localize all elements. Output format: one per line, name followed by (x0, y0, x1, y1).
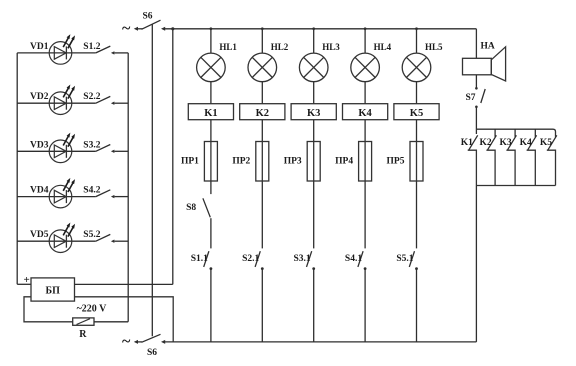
lamp HL4 (351, 42, 392, 82)
wire rail B (172, 29, 174, 285)
wire column 5 drop to lamp (416, 29, 418, 53)
switch S8 (186, 198, 210, 217)
svg-text:~: ~ (122, 333, 131, 350)
switch S7 (465, 89, 485, 108)
wire top rail corner to sounder (475, 29, 477, 59)
wire lamp to relay coil K2 (261, 82, 263, 104)
switch S4.1 (345, 251, 367, 270)
wire rail A (S6 top to S6 bottom) (151, 25, 153, 337)
wire bottom rail (164, 341, 476, 343)
wire contact block to bottom rail (475, 186, 477, 342)
fuse ПР3 (284, 142, 320, 182)
relay coil K5 (394, 104, 439, 120)
power supply unit БП (31, 278, 75, 301)
svg-text:S4.2: S4.2 (83, 186, 100, 196)
svg-text:HL4: HL4 (374, 42, 392, 52)
relay contact K5 (540, 135, 557, 185)
svg-text:S1.2: S1.2 (83, 42, 100, 52)
relay contact K2 (479, 135, 496, 185)
switch S2.1 (242, 251, 264, 270)
switch S3.2 (83, 140, 114, 153)
wire fuse to switch S5.1 (416, 181, 418, 248)
switch S1.1 (191, 251, 213, 270)
wire column 3 drop to lamp (313, 29, 315, 53)
svg-text:K4: K4 (358, 108, 372, 119)
fuse ПР5 (387, 142, 423, 182)
fuse ПР4 (335, 142, 371, 182)
node junction column 5 / top rail (415, 27, 418, 30)
wire S7 to contact block (475, 107, 477, 134)
wire LED left bus (+) (16, 53, 18, 284)
switch S2.2 (83, 92, 114, 105)
svg-text:K3: K3 (499, 138, 511, 148)
wire column 4 drop to lamp (364, 29, 366, 53)
wire AC input 1 (to rail B) (75, 283, 173, 285)
wire lamp to relay coil K3 (313, 82, 315, 104)
svg-text:VD5: VD5 (30, 230, 49, 240)
svg-text:S7: S7 (465, 93, 475, 103)
svg-text:S3.2: S3.2 (83, 140, 100, 150)
lamp HL5 (402, 42, 443, 82)
svg-text:ПР3: ПР3 (284, 157, 302, 167)
wire row 3 from left bus (17, 150, 96, 152)
wire fuse to switch S8 (210, 181, 212, 194)
wire top rail (164, 28, 476, 30)
wire S4.1 to bottom rail (364, 269, 366, 342)
svg-text:HL5: HL5 (425, 42, 443, 52)
wire row 5 from left bus (17, 240, 96, 242)
switch S1.2 (83, 42, 114, 55)
wire column 1 drop to lamp (210, 29, 212, 53)
switch S6 (bottom) (142, 334, 166, 358)
wire contact feed drop (514, 129, 516, 137)
lamp HL1 (197, 42, 238, 82)
wire fuse to switch S4.1 (364, 181, 366, 248)
wire S3.2 to right bus (115, 150, 129, 152)
node junction column 3 / top rail (312, 27, 315, 30)
relay coil K2 (240, 104, 285, 120)
svg-text:ПР5: ПР5 (387, 157, 405, 167)
fuse ПР2 (232, 142, 268, 182)
wire resistor R to LED right bus (94, 321, 128, 323)
lamp HL3 (299, 42, 340, 82)
wire coil to fuse ПР2 (261, 120, 263, 142)
svg-text:K1: K1 (204, 108, 217, 119)
svg-text:S1.1: S1.1 (191, 254, 208, 264)
wire S3.1 to bottom rail (313, 269, 315, 342)
wire S1.2 to right bus (115, 52, 129, 54)
LED VD2 (30, 85, 75, 115)
wire lamp to relay coil K1 (210, 82, 212, 104)
wire left bus to power supply (17, 283, 31, 285)
svg-text:ПР4: ПР4 (335, 157, 353, 167)
svg-text:S5.1: S5.1 (396, 254, 413, 264)
svg-text:HL3: HL3 (322, 42, 340, 52)
svg-text:VD3: VD3 (30, 140, 49, 150)
wire contact block top bus (476, 129, 555, 137)
wire LED right bus (127, 53, 129, 322)
svg-text:~: ~ (122, 20, 131, 37)
wire row 1 from left bus (17, 52, 96, 54)
wire lamp to relay coil K5 (416, 82, 418, 104)
svg-text:БП: БП (46, 286, 61, 297)
sounder HA (463, 42, 506, 82)
wire contact feed drop (534, 129, 536, 137)
wire AC input 2 (75, 297, 174, 342)
svg-text:S4.1: S4.1 (345, 254, 362, 264)
svg-text:VD4: VD4 (30, 186, 49, 196)
svg-text:~220 V: ~220 V (77, 303, 108, 314)
AC supply terminal ~ (bottom) (122, 333, 142, 350)
wire coil to fuse ПР4 (364, 120, 366, 142)
wire coil to fuse ПР5 (416, 120, 418, 142)
LED VD5 (30, 223, 75, 253)
node junction column 1 / top rail (210, 27, 213, 30)
wire S4.2 to right bus (115, 196, 129, 198)
switch S5.2 (83, 230, 114, 243)
svg-text:HA: HA (481, 42, 495, 52)
wire column 2 drop to lamp (261, 29, 263, 53)
wire S1.1 to bottom rail (210, 269, 212, 342)
wire coil to fuse ПР1 (210, 120, 212, 142)
wire S5.2 to right bus (115, 240, 129, 242)
switch S5.1 (396, 251, 418, 270)
svg-text:S8: S8 (186, 203, 196, 213)
LED VD3 (30, 133, 75, 163)
svg-text:S2.1: S2.1 (242, 254, 259, 264)
svg-text:HL1: HL1 (219, 42, 237, 52)
relay coil K1 (188, 104, 233, 120)
svg-text:S5.2: S5.2 (83, 230, 100, 240)
relay coil K4 (343, 104, 388, 120)
svg-text:S6: S6 (147, 348, 157, 358)
LED VD4 (30, 178, 75, 208)
svg-text:S6: S6 (143, 12, 153, 22)
svg-text:K2: K2 (479, 138, 491, 148)
switch S3.1 (294, 251, 316, 270)
wire lamp to relay coil K4 (364, 82, 366, 104)
wire fuse to switch S2.1 (261, 181, 263, 248)
svg-text:K5: K5 (540, 138, 552, 148)
wire contact block bottom bus (476, 185, 555, 187)
wire fuse to switch S3.1 (313, 181, 315, 248)
svg-text:ПР1: ПР1 (181, 157, 199, 167)
node junction column 4 / top rail (364, 27, 367, 30)
wire S2.2 to right bus (115, 102, 129, 104)
AC supply terminal ~ (top) (122, 20, 143, 37)
LED VD1 (30, 34, 75, 64)
wire S8 to S1.1 (210, 218, 212, 248)
wire row 4 from left bus (17, 196, 96, 198)
relay contact K3 (499, 135, 516, 185)
svg-text:R: R (79, 329, 87, 340)
svg-text:K5: K5 (410, 108, 423, 119)
node junction rail B / top rail (171, 27, 174, 30)
wire sounder to S7 (475, 75, 477, 88)
resistor R (73, 318, 94, 340)
svg-text:VD1: VD1 (30, 42, 49, 52)
wire S2.1 to bottom rail (261, 269, 263, 342)
svg-text:K2: K2 (256, 108, 269, 119)
switch S6 (top) (142, 12, 166, 31)
svg-text:VD2: VD2 (30, 92, 49, 102)
fuse ПР1 (181, 142, 217, 182)
relay contact K4 (520, 135, 537, 185)
wire S5.1 to bottom rail (416, 269, 418, 342)
svg-text:K4: K4 (520, 138, 532, 148)
svg-text:S3.1: S3.1 (294, 254, 311, 264)
svg-text:K3: K3 (307, 108, 320, 119)
switch S4.2 (83, 186, 114, 199)
wire contact feed drop (494, 129, 496, 137)
node junction column 2 / top rail (261, 27, 264, 30)
svg-text:HL2: HL2 (271, 42, 289, 52)
svg-text:K1: K1 (461, 138, 473, 148)
svg-text:S2.2: S2.2 (83, 92, 100, 102)
lamp HL2 (248, 42, 289, 82)
relay coil K3 (291, 104, 336, 120)
wire - output to resistor R (24, 297, 73, 322)
svg-text:ПР2: ПР2 (232, 157, 250, 167)
wire row 2 from left bus (17, 102, 96, 104)
relay contact K1 (461, 135, 478, 185)
wire coil to fuse ПР3 (313, 120, 315, 142)
